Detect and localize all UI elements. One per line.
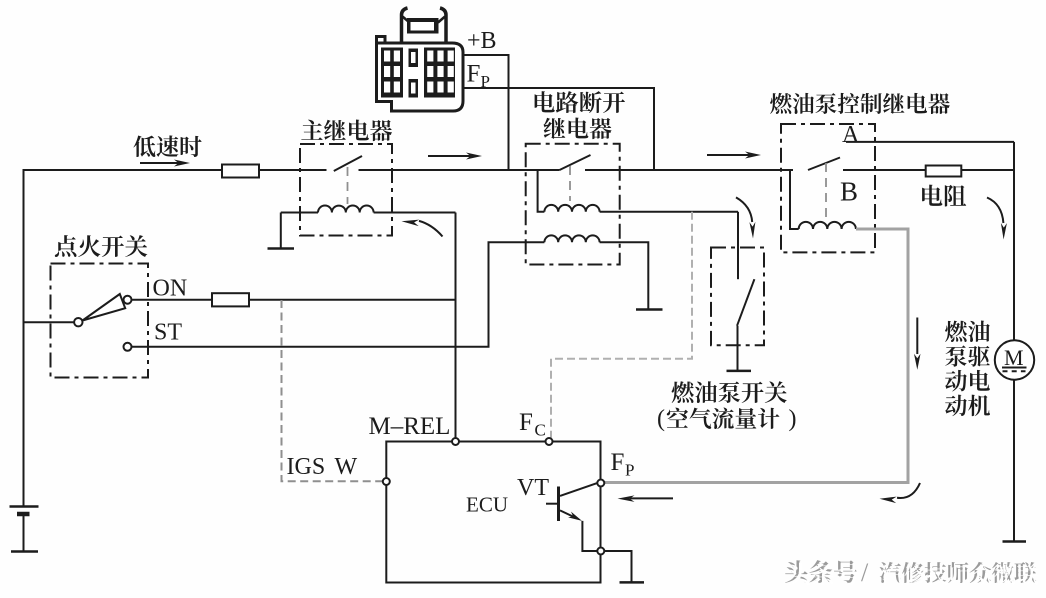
flow arrow down (gray wire) <box>914 318 921 370</box>
flow arrow curved (to K1 coil) <box>402 220 443 237</box>
relay K3 actuator link <box>825 163 827 218</box>
label ST <box>154 320 182 346</box>
wire ON line right <box>249 299 456 301</box>
wire IGS dashed <box>282 300 383 481</box>
ignition switch box <box>51 264 149 378</box>
ignition switch ST contact <box>124 343 132 351</box>
svg-text:ST: ST <box>154 320 182 346</box>
node emitter (ECU edge) <box>597 548 604 555</box>
relay K2 电路断开 label line1 <box>535 91 625 113</box>
label ECU <box>466 493 508 517</box>
flow arrow hook (gray wire corner) <box>880 483 921 503</box>
ignition switch pivot contact <box>74 318 82 326</box>
wire ON line left <box>132 299 213 301</box>
svg-text:C: C <box>535 421 546 440</box>
node IGS <box>383 478 390 485</box>
wire main bus to K1 <box>259 169 327 171</box>
ground (motor) <box>1003 540 1027 543</box>
transistor VT collector <box>560 483 598 496</box>
label M-REL <box>369 413 451 440</box>
relay K1 actuator link <box>347 167 349 204</box>
node FP <box>597 480 604 487</box>
svg-text:/: / <box>864 561 872 590</box>
motor M1 M symbol <box>1002 345 1027 371</box>
relay K1 switch blade <box>334 156 362 171</box>
svg-text:A: A <box>842 122 860 148</box>
wire rail to motor <box>1013 142 1015 341</box>
relay K2 actuator link <box>569 166 571 201</box>
flow arrow curved (into fuel pump switch) <box>736 197 755 238</box>
wire +B <box>463 55 509 170</box>
transistor VT base bar <box>557 487 560 522</box>
connector J1 body <box>377 37 464 112</box>
wire main bus K2 to K3 <box>585 169 793 171</box>
wire left rail <box>23 170 25 507</box>
relay K3 燃油泵控制继电器 label <box>770 93 950 114</box>
relay K1 coil <box>318 206 374 213</box>
flow arrow right (after K2) <box>707 152 761 159</box>
wire FP gray (K3 coil to ECU) <box>605 229 909 483</box>
ground (K1 coil) <box>268 247 295 250</box>
svg-text:): ) <box>789 406 797 432</box>
ground (VT emitter) <box>620 581 645 584</box>
relay K2 box <box>526 144 620 265</box>
svg-text:W: W <box>335 454 358 480</box>
relay K3 coil <box>799 222 856 229</box>
connector J1 pin block middle <box>409 49 419 98</box>
motor M1 circle <box>995 340 1034 379</box>
label FP (connector pin) <box>467 61 490 92</box>
relay K1 主继电器 label <box>301 119 392 141</box>
label 燃油泵开关 <box>672 381 787 403</box>
node M-REL <box>452 438 459 445</box>
label FC <box>519 409 546 440</box>
resistor R3 (ON line) <box>212 293 249 306</box>
label FP (ECU) <box>611 449 635 480</box>
relay K3 box <box>781 124 875 252</box>
wire emitter to node <box>582 521 597 551</box>
svg-text:ON: ON <box>153 276 188 302</box>
relay K1 box <box>300 144 392 236</box>
connector J1 latch tab <box>402 8 447 43</box>
ground (K2 coil L2) <box>636 308 663 311</box>
label 电阻 <box>922 185 966 207</box>
flow arrow right (after K1) <box>428 153 482 160</box>
connector J1 latch hole <box>411 22 435 31</box>
wire main bus K1 to K2 <box>359 169 560 171</box>
fuel pump switch bottom lead <box>737 326 739 371</box>
wire FC dashed <box>551 212 692 438</box>
fuel pump switch top lead <box>737 212 739 279</box>
flow arrow right (low speed) <box>140 160 190 167</box>
svg-text:F: F <box>467 61 481 88</box>
svg-text:M: M <box>1004 345 1024 370</box>
label ON <box>153 276 188 302</box>
flow arrow left (FP line) <box>618 495 674 502</box>
transistor VT emitter <box>560 510 582 521</box>
wire K2 bus tap to coil L1 <box>538 170 545 212</box>
wire K3 coil feed tap <box>790 170 799 229</box>
node FC <box>546 438 553 445</box>
ignition switch ON contact <box>124 296 132 304</box>
ground (fuel pump switch) <box>727 370 752 373</box>
relay K2 coil L1 <box>544 205 599 212</box>
svg-text:M–REL: M–REL <box>369 413 451 440</box>
resistor R1 (main line) <box>222 165 259 178</box>
wire main bus left <box>23 169 223 171</box>
svg-text:P: P <box>625 461 634 480</box>
ignition switch lever <box>83 294 126 321</box>
resistor R2 电阻 <box>926 166 962 177</box>
relay K2 继电器 label line2 <box>544 117 612 139</box>
flow arrow curved (down at resistor) <box>987 198 1007 240</box>
wire K2 L1 to fuel pump switch <box>600 211 738 213</box>
wire B line to rail <box>961 169 1014 171</box>
label 低速时 <box>133 135 201 157</box>
svg-text:IGS: IGS <box>287 454 326 480</box>
battery BT1 <box>10 507 39 552</box>
svg-text:B: B <box>840 177 858 207</box>
svg-text:VT: VT <box>517 475 549 501</box>
transistor VT base lead <box>546 503 559 505</box>
svg-text:F: F <box>611 449 625 476</box>
relay K2 coil L2 <box>544 235 599 242</box>
label 燃油泵驱动电动机 <box>945 321 990 417</box>
wire motor to ground <box>1013 380 1015 541</box>
wire K1 coil to ground <box>281 213 318 249</box>
svg-text:(: ( <box>657 406 665 432</box>
wire B line <box>843 169 926 171</box>
wire rail to ignition pivot <box>24 321 75 323</box>
fuel pump switch box <box>711 248 764 346</box>
wire emitter node to ground <box>604 551 631 582</box>
relay K3 terminal B label <box>840 177 858 207</box>
wire K2 L2 to ground <box>600 242 649 309</box>
relay K3 switch blade <box>808 158 840 171</box>
watermark 头条号/汽修技师众微联 <box>785 558 1038 590</box>
label IGS W <box>287 454 358 480</box>
wire A line <box>846 141 1014 143</box>
svg-text:F: F <box>519 409 533 436</box>
wire ST line <box>132 242 545 347</box>
ignition switch 点火开关 label <box>55 235 147 257</box>
label +B <box>467 28 497 54</box>
svg-text:+B: +B <box>467 28 497 54</box>
label (空气流量计) <box>657 406 797 432</box>
relay K2 switch blade <box>560 155 591 170</box>
ECU box <box>386 442 600 583</box>
wire FP from connector <box>463 88 654 170</box>
label VT <box>517 475 549 501</box>
connector J1 pin block right <box>424 48 455 98</box>
svg-text:ECU: ECU <box>466 493 508 517</box>
connector J1 pin block left <box>381 48 403 98</box>
wire K1 coil to M-REL <box>374 213 456 439</box>
fuel pump switch blade <box>737 279 754 326</box>
relay K3 terminal A label <box>842 122 860 148</box>
